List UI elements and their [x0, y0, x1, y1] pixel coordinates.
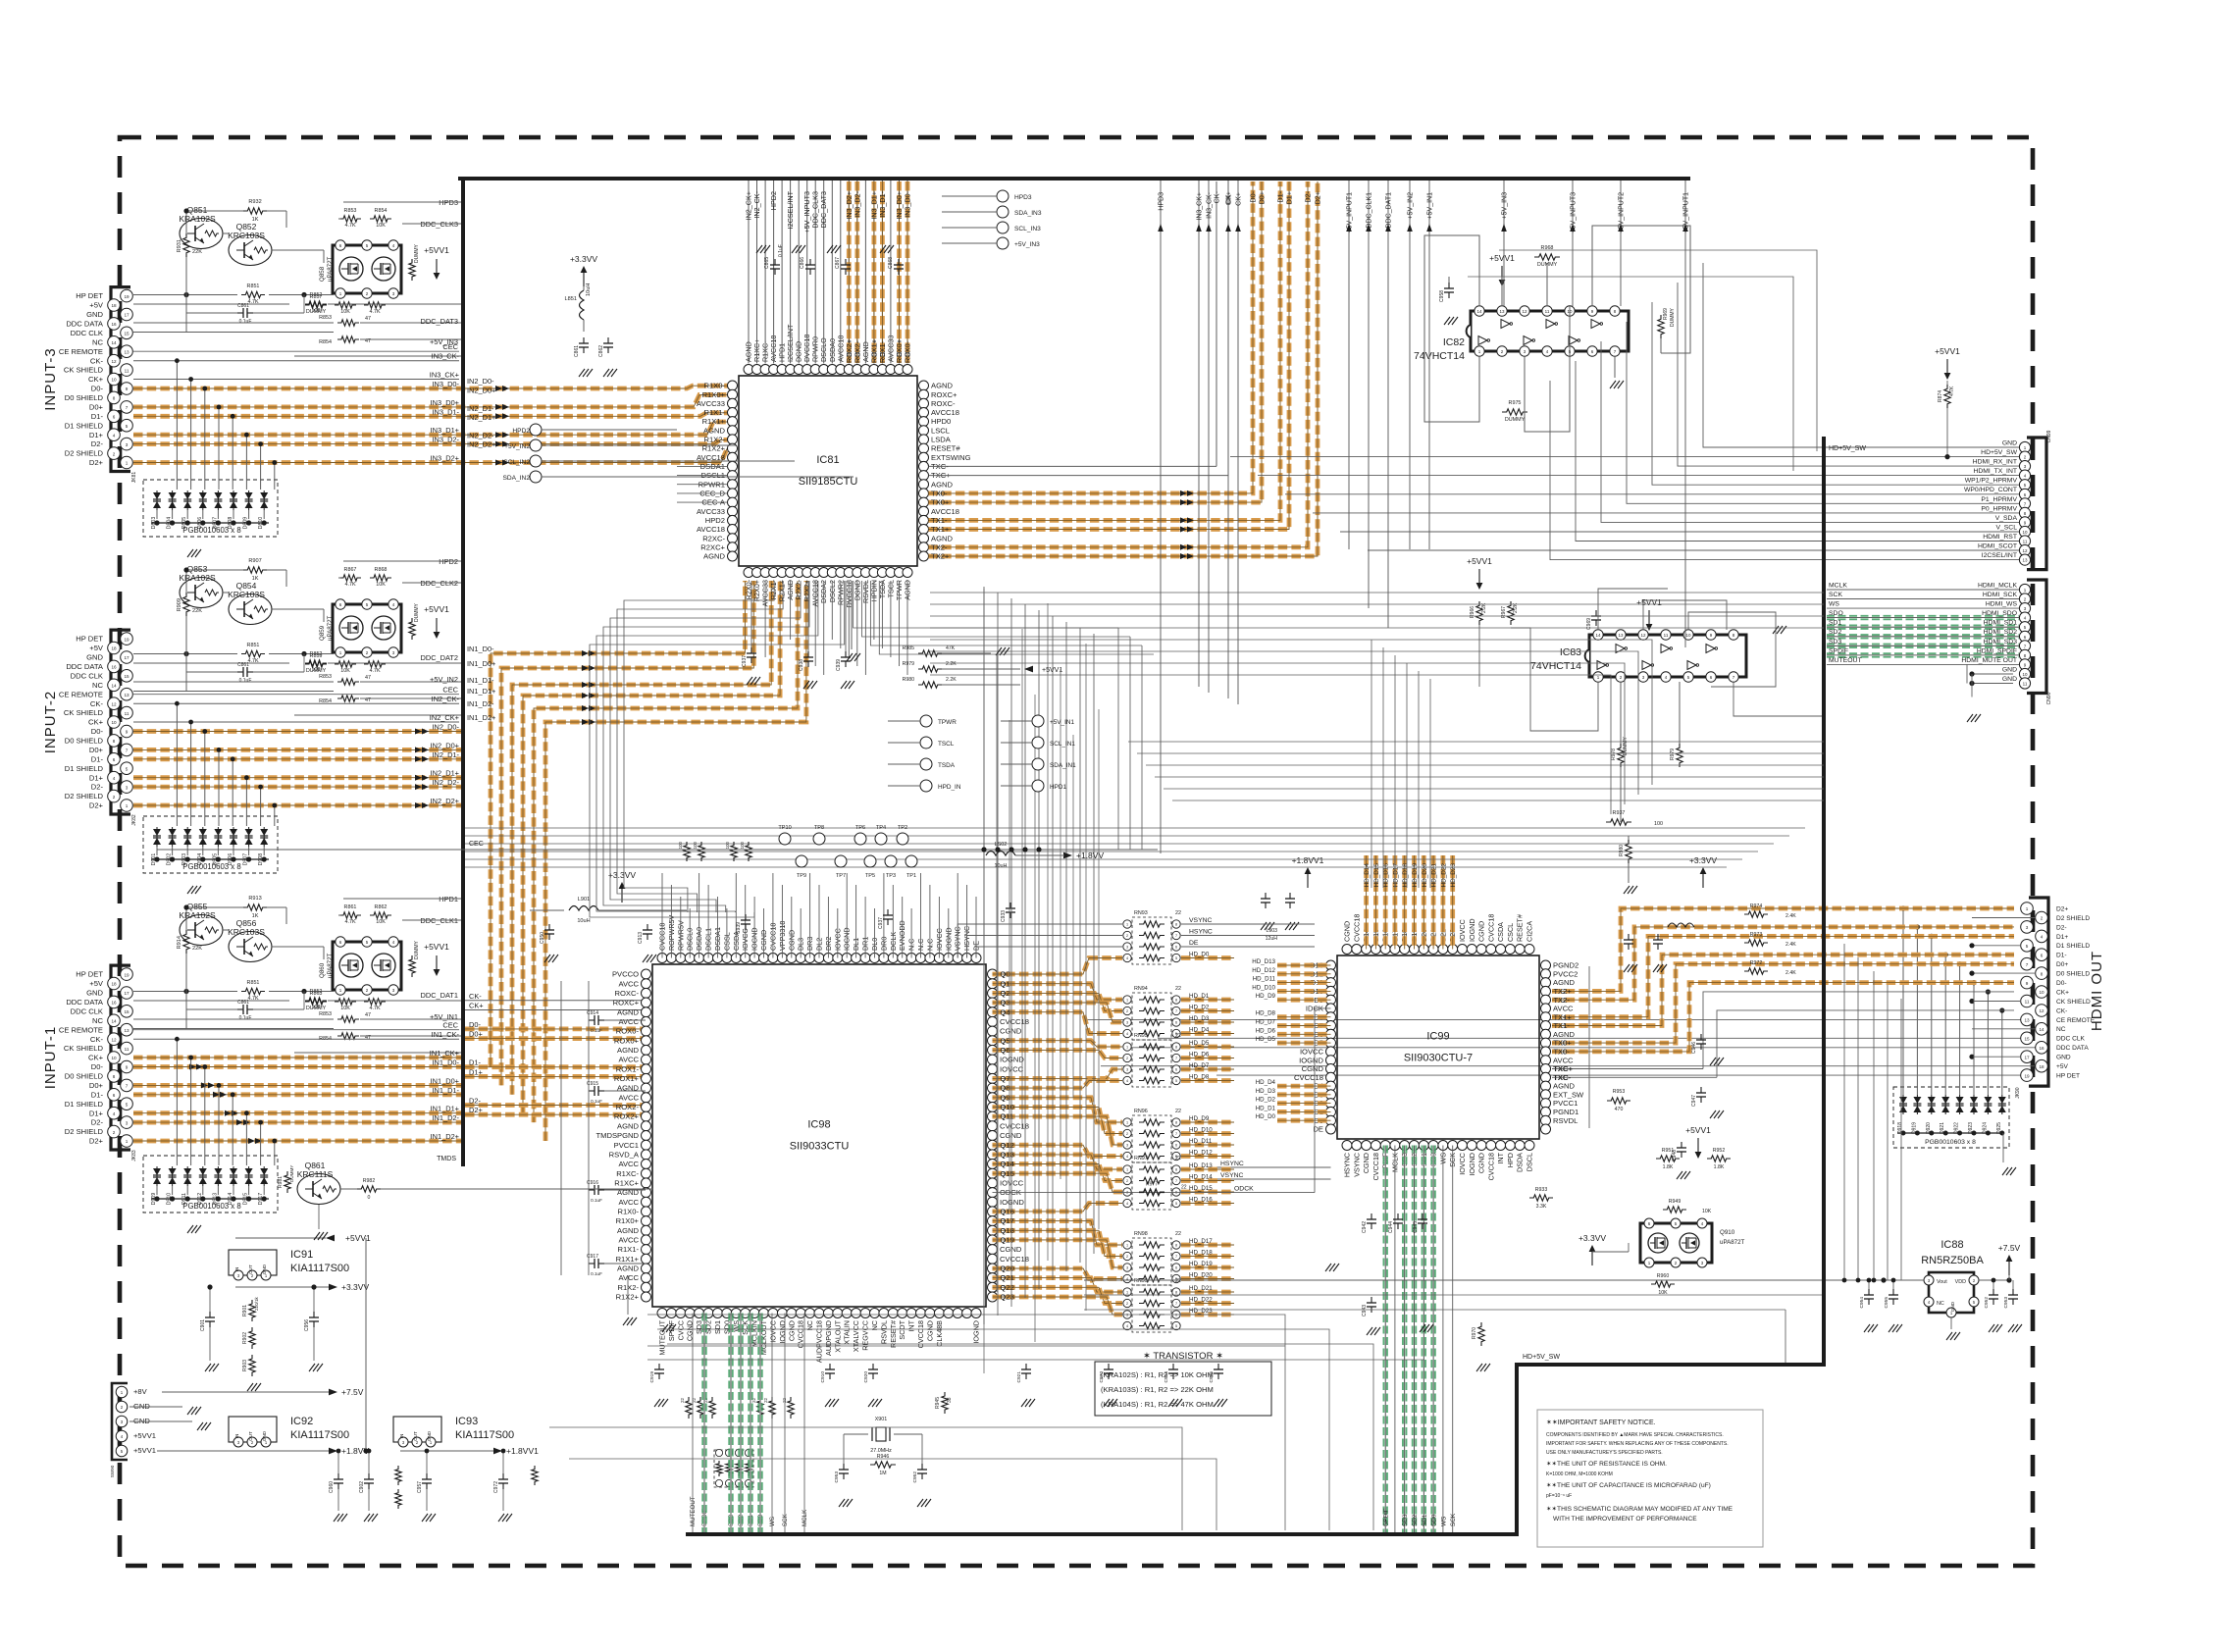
resistor R-a 4.7K	[339, 575, 361, 581]
svg-text:+5VV1: +5VV1	[424, 942, 449, 952]
svg-text:L903: L903	[1266, 928, 1277, 934]
capacitor C866 0.1uF	[809, 259, 811, 265]
svg-text:1K: 1K	[252, 217, 259, 223]
svg-text:Q17: Q17	[1001, 1216, 1014, 1225]
dual MOSFET Q859 uPA872T	[333, 604, 401, 652]
svg-text:R978: R978	[1611, 749, 1617, 760]
svg-text:11: 11	[1545, 309, 1550, 314]
svg-text:SCL_IN3: SCL_IN3	[1014, 226, 1041, 232]
svg-text:AVCC: AVCC	[618, 1198, 639, 1207]
resistor R945 33	[942, 1392, 948, 1414]
svg-text:CGND: CGND	[1302, 1064, 1324, 1073]
svg-text:17: 17	[2024, 1055, 2030, 1059]
regulator IC93 KIA1117S00	[393, 1417, 441, 1442]
svg-text:D0 SHIELD: D0 SHIELD	[65, 737, 104, 746]
svg-text:NC: NC	[92, 1016, 103, 1025]
IC IC82 74VHCT14	[1471, 311, 1629, 351]
svg-text:10K: 10K	[376, 223, 386, 229]
svg-text:14: 14	[111, 684, 117, 689]
IC99 right rail	[1588, 966, 1590, 1128]
svg-text:Q18: Q18	[1001, 1226, 1014, 1235]
capacitor C938 0.1uF (IC81 bottom)	[807, 651, 809, 657]
svg-text:IN3_D2+: IN3_D2+	[431, 454, 459, 463]
svg-text:KRA102S: KRA102S	[179, 214, 216, 224]
svg-text:HD_D0: HD_D0	[1256, 1113, 1276, 1120]
wire black verticals under IC98	[692, 1314, 694, 1533]
svg-text:8: 8	[113, 1074, 116, 1079]
svg-text:RN93: RN93	[1134, 910, 1148, 916]
svg-text:VSYNC: VSYNC	[1189, 917, 1213, 924]
svg-text:HD_D23: HD_D23	[1189, 1308, 1213, 1315]
svg-text:C933: C933	[1001, 910, 1007, 922]
svg-text:4.7K: 4.7K	[1949, 386, 1955, 396]
svg-text:1: 1	[1126, 923, 1128, 927]
svg-text:R852: R852	[310, 989, 323, 995]
svg-text:4: 4	[1126, 1202, 1128, 1206]
svg-text:RSVD_A: RSVD_A	[609, 1151, 640, 1160]
power +1.8VV1 at IC99	[1307, 874, 1309, 888]
network RN81 below IC98	[714, 1450, 753, 1487]
svg-text:100: 100	[312, 308, 321, 314]
svg-text:22K: 22K	[192, 946, 202, 952]
svg-text:HD+5V_SW: HD+5V_SW	[1523, 1354, 1560, 1361]
svg-text:CVCC18: CVCC18	[1486, 914, 1495, 942]
svg-text:DDC CLK: DDC CLK	[2056, 1036, 2086, 1043]
svg-text:HDMI_SD3: HDMI_SD3	[1984, 639, 2018, 645]
ground marks CN90	[187, 1407, 193, 1415]
svg-text:✶✶THE UNIT OF CAPACITANCE: ✶✶THE UNIT OF CAPACITANCE IS MICROFARAD …	[1546, 1481, 1711, 1489]
svg-text:IN3_D2-: IN3_D2-	[432, 436, 459, 444]
svg-text:CVCC18: CVCC18	[1000, 1255, 1029, 1264]
svg-text:GND: GND	[262, 1264, 267, 1274]
svg-text:C901: C901	[200, 1319, 206, 1331]
svg-text:10: 10	[2039, 990, 2044, 995]
svg-text:+5V_IN2: +5V_IN2	[430, 675, 458, 684]
resistor R-j 47	[133, 1028, 334, 1030]
svg-text:OUT: OUT	[413, 1431, 418, 1441]
svg-text:TX0-: TX0-	[1554, 1048, 1571, 1057]
svg-text:2.2K: 2.2K	[946, 677, 957, 683]
svg-text:47: 47	[365, 675, 371, 681]
capacitor C901 0.1uF	[209, 1312, 211, 1317]
svg-text:OUT: OUT	[248, 1431, 253, 1441]
svg-text:11: 11	[2023, 682, 2028, 687]
capacitor C953b	[2012, 1289, 2014, 1295]
svg-text:D0-: D0-	[91, 727, 104, 736]
svg-text:R1X0-: R1X0-	[617, 1208, 639, 1216]
resistor R-c DUMMY	[305, 999, 327, 1005]
svg-text:AUDPGND: AUDPGND	[824, 1320, 833, 1356]
IC98 left rail caps	[589, 1019, 595, 1021]
svg-text:2.4K: 2.4K	[1785, 942, 1796, 948]
svg-text:3: 3	[1126, 946, 1128, 950]
svg-text:HD_D7: HD_D7	[1189, 1062, 1210, 1069]
svg-text:SCK: SCK	[1450, 1513, 1457, 1526]
svg-text:R867: R867	[344, 567, 357, 573]
svg-text:D2-: D2-	[469, 1097, 481, 1106]
svg-text:HD+5V_SW: HD+5V_SW	[1829, 445, 1866, 452]
svg-text:19: 19	[2024, 1073, 2030, 1078]
svg-text:XTALOUT: XTALOUT	[833, 1319, 842, 1352]
svg-text:SDO: SDO	[1829, 610, 1843, 617]
svg-text:V_SCL: V_SCL	[1995, 525, 2017, 532]
svg-text:WS: WS	[1829, 601, 1839, 608]
svg-text:15: 15	[124, 1009, 129, 1014]
svg-text:D0+: D0+	[89, 746, 104, 754]
svg-text:IN2_CK+: IN2_CK+	[430, 713, 459, 722]
svg-text:P0_HPRMV: P0_HPRMV	[1981, 505, 2017, 512]
svg-text:C939: C939	[836, 659, 842, 671]
svg-text:CI2CA: CI2CA	[1526, 921, 1534, 942]
terminal circles TPWR/TSCL/TSDA/HPD_IN	[920, 715, 932, 727]
connector CN98 (audio)	[2027, 580, 2046, 694]
svg-text:+3.3VV: +3.3VV	[1578, 1233, 1606, 1243]
svg-text:WP1/P2_HPRMV: WP1/P2_HPRMV	[1965, 478, 2018, 485]
svg-text:18: 18	[111, 646, 117, 651]
svg-text:MUTEOUT: MUTEOUT	[1829, 657, 1862, 664]
svg-text:PVCC1: PVCC1	[1553, 1099, 1578, 1108]
transistor Q861 KRC111S	[297, 1174, 340, 1205]
svg-text:L851: L851	[565, 296, 577, 302]
svg-text:D2+: D2+	[2056, 905, 2068, 912]
svg-text:OUT: OUT	[248, 1265, 253, 1274]
svg-text:DUMMY: DUMMY	[1670, 307, 1676, 327]
svg-text:IOGND: IOGND	[1000, 1198, 1024, 1207]
svg-text:AGND: AGND	[1553, 1082, 1575, 1091]
svg-text:IN3_CK-: IN3_CK-	[1207, 191, 1214, 219]
svg-text:C919: C919	[649, 1371, 655, 1383]
svg-text:GND: GND	[2002, 667, 2017, 674]
svg-text:SD2: SD2	[1829, 629, 1841, 636]
svg-text:220/1k: 220/1k	[254, 1297, 259, 1311]
svg-text:KRC103S: KRC103S	[228, 927, 265, 937]
CN98 pins and labels	[2019, 584, 2030, 594]
svg-text:+7.5V: +7.5V	[1998, 1243, 2021, 1253]
svg-text:CK SHIELD: CK SHIELD	[64, 1044, 104, 1053]
svg-text:HD_D7: HD_D7	[1256, 1019, 1276, 1026]
svg-text:HD_D21: HD_D21	[1431, 863, 1438, 888]
svg-text:4.7K: 4.7K	[369, 668, 380, 674]
svg-text:R909: R909	[177, 598, 182, 611]
svg-text:VSYNC: VSYNC	[1352, 1153, 1361, 1177]
svg-text:AGND: AGND	[931, 534, 953, 542]
resistor R874 4.7K pullup	[1946, 359, 1948, 373]
svg-text:SD3: SD3	[1829, 639, 1841, 645]
svg-text:AVCC18: AVCC18	[697, 525, 725, 534]
svg-text:AGND: AGND	[617, 1046, 639, 1055]
svg-text:GND: GND	[2002, 676, 2017, 683]
svg-text:AVCC: AVCC	[618, 979, 639, 988]
svg-text:KRC103S: KRC103S	[228, 231, 265, 240]
capacitor C913 0.1uF	[647, 924, 648, 930]
svg-text:COMPONENTS IDENTIFIED BY ▲MAR: COMPONENTS IDENTIFIED BY ▲MARK HAVE SPEC…	[1546, 1432, 1724, 1438]
svg-text:15: 15	[124, 674, 129, 679]
svg-text:PGB0010603 x 8: PGB0010603 x 8	[182, 1202, 240, 1211]
svg-text:D2 SHIELD: D2 SHIELD	[2056, 915, 2090, 922]
svg-text:R1X1-: R1X1-	[703, 408, 725, 417]
IC body IC99 SII9030CTU-7	[1337, 955, 1539, 1139]
svg-text:1: 1	[126, 803, 129, 808]
svg-text:1K: 1K	[252, 913, 259, 919]
svg-text:C870: C870	[1099, 1371, 1105, 1383]
svg-text:HSYNC: HSYNC	[1189, 929, 1213, 936]
svg-text:R969: R969	[1663, 308, 1669, 320]
svg-text:R933: R933	[1535, 1187, 1548, 1193]
resistor R-g 47K row	[133, 991, 237, 993]
svg-text:10: 10	[111, 1056, 117, 1060]
svg-text:R970: R970	[1472, 1327, 1477, 1339]
connector INPUT-2 (JK82)	[111, 630, 130, 814]
svg-text:CVCC18: CVCC18	[1000, 1017, 1029, 1026]
svg-text:HDMI_RX_INT: HDMI_RX_INT	[1973, 459, 2017, 466]
svg-text:HD_D14: HD_D14	[1189, 1174, 1213, 1181]
wire bus IC99 TX pairs to HDMI OUT (orange)	[1552, 908, 2014, 991]
svg-text:IN3_D0+: IN3_D0+	[431, 398, 459, 407]
svg-text:IN3_D1+: IN3_D1+	[431, 426, 459, 435]
svg-text:1: 1	[126, 1139, 129, 1144]
svg-text:INT: INT	[1496, 1152, 1505, 1163]
IC body IC98 SII9033CTU	[652, 964, 986, 1307]
svg-text:TP5: TP5	[865, 873, 875, 879]
capacitor C956 47/25V	[313, 1312, 315, 1317]
svg-text:13: 13	[1618, 633, 1624, 638]
svg-text:D1+: D1+	[2056, 934, 2068, 941]
resistor R980b 2.2K	[918, 682, 942, 688]
svg-text:TP3: TP3	[886, 873, 896, 879]
svg-text:DDC_CLK1: DDC_CLK1	[1367, 192, 1373, 229]
svg-text:ROX2-: ROX2-	[853, 340, 861, 363]
svg-text:6: 6	[1175, 946, 1177, 950]
resistor R-b 10K	[370, 575, 391, 581]
connector INPUT-1 (JK83)	[111, 965, 130, 1150]
power +3.3VV arrow	[583, 273, 585, 286]
svg-text:D1-: D1-	[91, 754, 104, 763]
svg-text:LSDA: LSDA	[931, 436, 952, 444]
svg-text:IN3_D1-: IN3_D1-	[432, 407, 459, 416]
svg-text:SCDT: SCDT	[898, 1319, 906, 1339]
svg-text:Q1: Q1	[1001, 979, 1010, 988]
svg-text:XTALVCC: XTALVCC	[852, 1320, 860, 1352]
svg-text:HDMI OUT: HDMI OUT	[2089, 951, 2105, 1031]
svg-text:+5VV1: +5VV1	[1489, 253, 1515, 263]
wire long verticals between IC81 and IC82 zone	[1160, 181, 1162, 853]
svg-text:4: 4	[2041, 935, 2044, 940]
wire nested L runs IC81 right to lower right	[930, 592, 1824, 594]
svg-text:12: 12	[2022, 548, 2028, 553]
svg-text:HD_D9: HD_D9	[1256, 993, 1276, 1000]
svg-text:22: 22	[1175, 986, 1181, 992]
svg-text:IN3_D1-: IN3_D1-	[878, 190, 887, 217]
IC98 top pin wires	[661, 873, 663, 958]
svg-text:HD_D12: HD_D12	[1189, 1150, 1213, 1157]
svg-text:3: 3	[126, 1120, 129, 1125]
svg-text:4: 4	[1126, 1079, 1128, 1083]
svg-text:ROX0+: ROX0+	[614, 1036, 640, 1045]
resistor R-e 4.7K	[364, 302, 386, 308]
svg-text:TSDA: TSDA	[938, 762, 956, 769]
svg-text:HD_D10: HD_D10	[1189, 1127, 1213, 1134]
svg-text:47: 47	[365, 316, 371, 322]
svg-text:HPD2: HPD2	[439, 557, 458, 566]
svg-text:IN2_D2+: IN2_D2+	[431, 797, 459, 805]
svg-text:AVCC18: AVCC18	[931, 408, 959, 417]
svg-text:C952: C952	[912, 1471, 918, 1483]
wire bus SPDIF/SD3-SD0 (green, vertical)	[1382, 1146, 1387, 1533]
svg-text:100: 100	[312, 1005, 321, 1010]
svg-text:12: 12	[1640, 633, 1646, 638]
svg-text:TX2-: TX2-	[1554, 996, 1571, 1005]
ground Q861	[314, 1232, 320, 1240]
ground IC81 bottom-left	[847, 653, 853, 661]
power +3.3VV at IC98	[621, 889, 623, 903]
svg-text:22: 22	[1181, 1185, 1187, 1191]
note box TRANSISTOR marks	[1095, 1362, 1271, 1416]
svg-text:HSYNC: HSYNC	[1343, 1153, 1352, 1177]
svg-text:HD_D6: HD_D6	[1256, 1027, 1276, 1034]
svg-text:+8V: +8V	[133, 1387, 148, 1396]
svg-text:VSYNC: VSYNC	[1220, 1172, 1244, 1179]
svg-text:C958: C958	[1439, 290, 1445, 302]
svg-text:R972: R972	[1750, 960, 1763, 966]
svg-text:22K: 22K	[192, 249, 202, 255]
svg-text:2.4K: 2.4K	[1785, 970, 1796, 976]
svg-text:0.1uF: 0.1uF	[239, 1015, 252, 1021]
power +5VV1 at IC82	[1501, 266, 1503, 280]
svg-text:100: 100	[725, 841, 730, 849]
svg-text:INPUT-1: INPUT-1	[42, 1026, 59, 1090]
resistor R-b 10K	[370, 216, 391, 222]
transistor Q853 KRA102S	[180, 578, 223, 608]
svg-text:+5V_IN3: +5V_IN3	[1502, 192, 1509, 220]
svg-text:PGND1: PGND1	[1553, 1108, 1578, 1116]
svg-text:4: 4	[113, 433, 116, 438]
svg-text:AVCC: AVCC	[618, 1236, 639, 1245]
svg-text:HD_D22: HD_D22	[1440, 863, 1447, 888]
svg-text:R960: R960	[1657, 1273, 1670, 1279]
IC99 right pins	[1541, 960, 1551, 970]
svg-text:2: 2	[113, 795, 116, 800]
svg-text:I2CSEL/INT: I2CSEL/INT	[1982, 552, 2017, 559]
wire bus IN3 TMDS pairs to IC81 (orange)	[133, 386, 728, 388]
resistor R-j 47	[133, 332, 334, 334]
resistor R913 1K	[243, 904, 267, 910]
svg-text:C943: C943	[1362, 1305, 1368, 1316]
svg-text:+5VV1: +5VV1	[424, 604, 449, 614]
wire IN1_CK+ (orange)	[133, 1056, 465, 1060]
svg-text:2: 2	[1126, 1302, 1128, 1306]
svg-text:D0-: D0-	[2056, 980, 2067, 987]
power +5VV1 arrow	[436, 955, 438, 969]
svg-text:(KRA104S) : R1, R2 => 47K OHM: (KRA104S) : R1, R2 => 47K OHM	[1101, 1400, 1214, 1409]
svg-text:CN99: CN99	[2046, 430, 2052, 442]
svg-text:SD3: SD3	[1402, 1514, 1409, 1526]
svg-text:DDC DATA: DDC DATA	[66, 320, 104, 329]
diode array D909-D917 PGB0010603 x 8	[143, 1156, 278, 1213]
svg-text:P1_HPRMV: P1_HPRMV	[1981, 496, 2017, 503]
svg-text:TP1: TP1	[906, 873, 916, 879]
svg-text:ROXC+: ROXC+	[931, 390, 957, 399]
svg-text:HDMI_SD2: HDMI_SD2	[1984, 629, 2018, 636]
svg-text:R980: R980	[903, 677, 915, 683]
svg-text:18: 18	[111, 303, 117, 308]
inductor L901 10uH	[569, 906, 598, 911]
svg-text:TPWR: TPWR	[938, 719, 957, 726]
svg-text:1K: 1K	[252, 576, 259, 582]
terminal circles +5V_IN1/SCL_IN1/SDA_IN1/HPD1	[1032, 715, 1044, 727]
svg-text:HD_D5: HD_D5	[1256, 1036, 1276, 1043]
svg-text:CSCL: CSCL	[1506, 923, 1515, 942]
ground IC88	[1946, 1332, 1952, 1340]
svg-text:IN2_D2-: IN2_D2-	[467, 431, 494, 439]
svg-text:D1 SHIELD: D1 SHIELD	[65, 421, 104, 430]
wire VSYNC/HSYNC/DE from IC98 top to RN93	[957, 924, 1122, 958]
svg-text:17: 17	[124, 313, 129, 318]
svg-text:SD1: SD1	[713, 1320, 722, 1334]
IC81 right pins	[919, 381, 929, 390]
svg-text:HDMI_MUTE OUT: HDMI_MUTE OUT	[1961, 657, 2017, 664]
ground CN98	[1967, 714, 1973, 722]
svg-text:C953: C953	[2003, 1297, 2009, 1309]
crystal X901 27.0MHz circuit	[876, 1427, 886, 1441]
resistor R979b 2.2K	[918, 666, 942, 672]
svg-text:ROXC-: ROXC-	[615, 989, 640, 998]
wire MCLK/WS/SCK below IC99	[1394, 1146, 1396, 1533]
svg-text:7: 7	[1175, 934, 1177, 938]
svg-text:0: 0	[368, 1195, 371, 1201]
transistor Q851 KRA102S	[180, 219, 223, 249]
svg-text:HD_D17: HD_D17	[1392, 863, 1399, 888]
svg-text:IOGND: IOGND	[1299, 1056, 1323, 1064]
svg-text:7: 7	[1175, 1179, 1177, 1183]
svg-text:C862: C862	[598, 345, 604, 357]
svg-text:RN97: RN97	[1134, 1156, 1148, 1162]
svg-text:13: 13	[124, 349, 129, 354]
svg-text:HD_D2: HD_D2	[1256, 1097, 1276, 1104]
resistor R977 22 (ODCK)	[1139, 1189, 1164, 1195]
svg-text:CGND: CGND	[925, 1320, 934, 1341]
svg-text:R1X1+: R1X1+	[702, 417, 726, 426]
IC81 bottom pins	[744, 568, 753, 578]
transistor Q852 KRC103S	[229, 235, 272, 266]
capacitor C862 0.1uF	[607, 337, 609, 343]
resistor R901 220/1k	[249, 1300, 255, 1321]
svg-text:C920: C920	[863, 1371, 869, 1383]
svg-text:4: 4	[113, 776, 116, 781]
resistor R972 2.4K	[1744, 968, 1768, 974]
svg-text:0.1uF: 0.1uF	[591, 1271, 602, 1276]
svg-text:DDC CLK: DDC CLK	[71, 1007, 103, 1015]
resistor R953 470	[1607, 1098, 1630, 1104]
svg-text:TX2+: TX2+	[931, 552, 950, 561]
wire CEC INPUT-2	[133, 694, 459, 696]
svg-text:WS: WS	[769, 1517, 776, 1526]
svg-text:RN5RZ50BA: RN5RZ50BA	[1921, 1255, 1984, 1266]
svg-text:PVCCO: PVCCO	[612, 970, 639, 979]
svg-text:10uH: 10uH	[577, 918, 590, 924]
svg-text:PGB0010603 x 8: PGB0010603 x 8	[182, 862, 240, 871]
svg-text:ROX0-: ROX0-	[904, 340, 912, 363]
resistor R-h 100	[133, 1000, 289, 1002]
svg-text:16: 16	[111, 1001, 117, 1006]
resistor R949 10K	[1663, 1207, 1686, 1213]
svg-text:D0 SHIELD: D0 SHIELD	[65, 1072, 104, 1081]
svg-text:GND: GND	[427, 1430, 432, 1441]
svg-text:R853: R853	[344, 208, 357, 214]
svg-text:TX1-: TX1-	[931, 516, 948, 525]
capacitor C953 22p	[843, 1464, 845, 1470]
svg-text:AVCC: AVCC	[618, 1056, 639, 1064]
svg-text:100: 100	[740, 841, 745, 849]
